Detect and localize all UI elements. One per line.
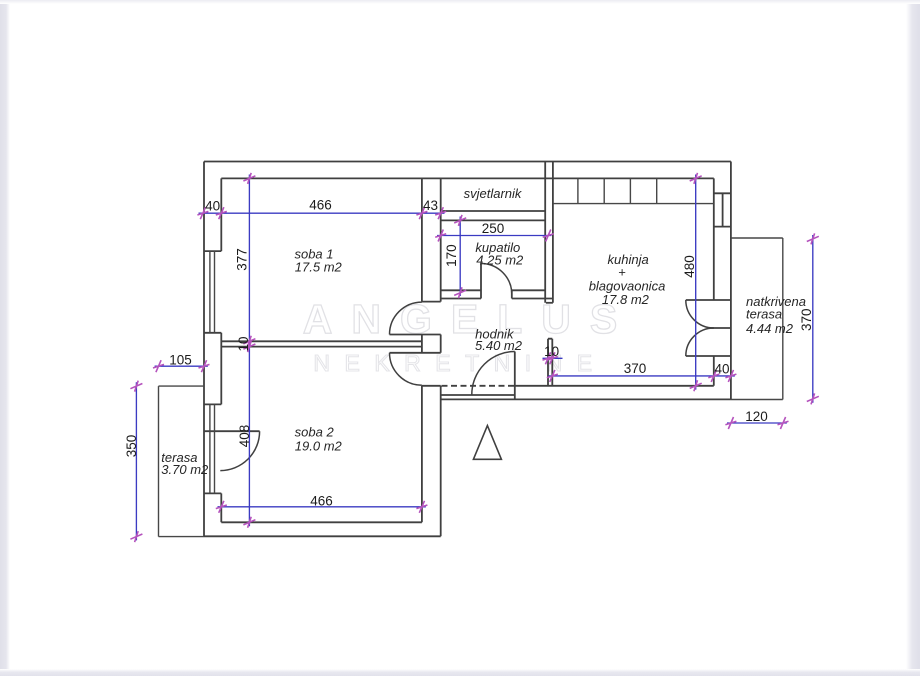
- svg-text:170: 170: [444, 244, 459, 267]
- svg-text:377: 377: [235, 248, 250, 271]
- svg-text:kuhinja: kuhinja: [607, 252, 648, 267]
- svg-text:105: 105: [169, 353, 192, 368]
- svg-text:NEKRETNINE: NEKRETNINE: [313, 350, 606, 376]
- svg-text:17.5 m2: 17.5 m2: [295, 259, 343, 274]
- svg-text:soba 2: soba 2: [295, 425, 335, 440]
- svg-text:43: 43: [423, 198, 438, 213]
- svg-text:+: +: [618, 265, 626, 280]
- svg-text:480: 480: [682, 255, 697, 278]
- svg-text:10: 10: [236, 336, 251, 351]
- svg-text:120: 120: [745, 409, 768, 424]
- svg-text:terasa: terasa: [746, 307, 782, 322]
- svg-text:370: 370: [624, 361, 647, 376]
- svg-text:4.25 m2: 4.25 m2: [476, 253, 524, 268]
- svg-text:17.8 m2: 17.8 m2: [602, 292, 650, 307]
- svg-text:40: 40: [205, 199, 220, 214]
- svg-text:10: 10: [544, 344, 559, 359]
- svg-text:3.70 m2: 3.70 m2: [161, 462, 209, 477]
- svg-text:5.40 m2: 5.40 m2: [475, 338, 523, 353]
- svg-text:40: 40: [714, 361, 729, 376]
- svg-text:250: 250: [482, 221, 505, 236]
- svg-text:350: 350: [124, 435, 139, 458]
- svg-text:370: 370: [799, 308, 814, 331]
- svg-text:466: 466: [309, 198, 332, 213]
- svg-text:466: 466: [310, 493, 333, 508]
- svg-text:19.0 m2: 19.0 m2: [295, 439, 343, 454]
- svg-text:408: 408: [237, 425, 252, 448]
- svg-text:ANGELUS: ANGELUS: [303, 296, 636, 342]
- svg-text:4.44 m2: 4.44 m2: [746, 321, 794, 336]
- svg-text:svjetlarnik: svjetlarnik: [464, 186, 523, 201]
